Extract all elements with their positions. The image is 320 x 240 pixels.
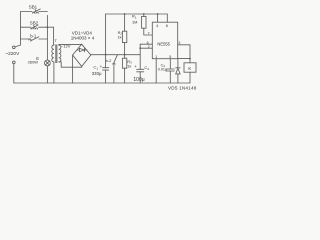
svg-text:2: 2 <box>148 45 150 49</box>
wire pin1 to bus <box>155 59 157 83</box>
wire primary bottom to bus <box>53 62 55 83</box>
svg-text:SB2: SB2 <box>30 20 39 25</box>
contact b-2 <box>113 55 118 83</box>
diode VD5 <box>176 59 180 83</box>
transformer T primary winding <box>52 45 54 63</box>
wire pin6 <box>140 43 152 45</box>
svg-text:8: 8 <box>166 24 168 28</box>
wire top-left corner to SB1 <box>21 12 33 46</box>
wire lower terminal to bottom bus <box>13 64 15 83</box>
junction VD5 tap <box>189 58 191 60</box>
svg-text:C1: C1 <box>93 65 98 71</box>
bridge rectifier VD1~VD4 diamond <box>73 44 91 66</box>
svg-text:0.01μ: 0.01μ <box>158 67 167 71</box>
wire lamp to bottom bus <box>46 66 48 83</box>
capacitor C3 <box>137 69 144 83</box>
svg-text:~220V: ~220V <box>5 51 20 57</box>
top bus <box>106 13 168 15</box>
wire timing node vertical <box>139 44 141 69</box>
wire VD5 tap <box>178 58 190 60</box>
svg-text:SB1: SB1 <box>29 4 38 9</box>
svg-text:K: K <box>188 66 191 71</box>
resistor R2 <box>122 14 126 55</box>
junction pin2 node <box>139 47 141 49</box>
svg-text:≤60W: ≤60W <box>28 60 38 65</box>
junction R3 <box>124 54 126 56</box>
svg-text:R1: R1 <box>132 14 137 20</box>
terminal lower <box>13 61 16 64</box>
wire pin2 <box>140 47 152 49</box>
svg-text:C3: C3 <box>144 65 149 71</box>
capacitor C4 <box>166 59 174 83</box>
svg-text:1k: 1k <box>127 64 131 68</box>
resistor R3 <box>122 55 126 83</box>
lamp E <box>45 60 51 66</box>
svg-text:NE555: NE555 <box>157 42 170 47</box>
switch SB2 <box>21 25 48 29</box>
svg-text:3: 3 <box>178 41 180 45</box>
svg-text:VD5 1N4148: VD5 1N4148 <box>168 86 197 91</box>
wire left rail to source terminal <box>15 45 20 47</box>
wire secondary bottom to bridge <box>59 62 82 67</box>
relay K box <box>184 63 196 72</box>
wire right rail <box>46 15 48 60</box>
bottom bus <box>14 82 190 84</box>
pin riser 8 <box>166 14 168 22</box>
svg-text:b-2: b-2 <box>106 58 113 63</box>
transformer core <box>56 45 57 63</box>
wire node to transformer primary <box>47 27 53 44</box>
transformer T secondary winding <box>59 45 61 62</box>
wire bridge negative to bottom bus <box>72 55 74 83</box>
svg-text:4: 4 <box>156 24 158 28</box>
wire secondary top to bridge <box>59 43 82 46</box>
junction top bus R1 <box>143 13 145 15</box>
op-amp U1 NE555 box <box>152 22 177 59</box>
node junction on right rail <box>47 26 49 28</box>
bridge inner diode <box>77 48 87 51</box>
wire pin3 to relay <box>178 45 190 63</box>
svg-text:7: 7 <box>148 31 150 35</box>
node bus (bridge + to timing node) <box>91 54 140 56</box>
svg-text:+: + <box>134 64 137 69</box>
svg-text:330μ: 330μ <box>92 71 102 76</box>
riser C1 node to top bus <box>105 14 107 55</box>
svg-text:1M: 1M <box>132 20 137 25</box>
resistor R1 <box>142 14 153 35</box>
svg-text:+: + <box>100 64 103 69</box>
svg-text:1N4003 × 4: 1N4003 × 4 <box>71 36 95 41</box>
switch SB1 <box>33 9 48 13</box>
svg-text:100μ: 100μ <box>133 77 144 83</box>
capacitor C1 <box>103 55 109 83</box>
wire relay to bus <box>189 72 191 83</box>
contact b-1 <box>21 37 48 41</box>
svg-text:1k: 1k <box>118 36 122 40</box>
terminal upper <box>13 46 16 49</box>
svg-text:T: T <box>55 38 58 43</box>
pin riser 4 <box>157 14 159 22</box>
junction C1 riser <box>105 54 107 56</box>
svg-text:~12V: ~12V <box>61 43 71 48</box>
junction top bus pin4 <box>157 13 159 15</box>
svg-text:b-1: b-1 <box>30 33 37 38</box>
junction top bus R2 <box>124 13 126 15</box>
